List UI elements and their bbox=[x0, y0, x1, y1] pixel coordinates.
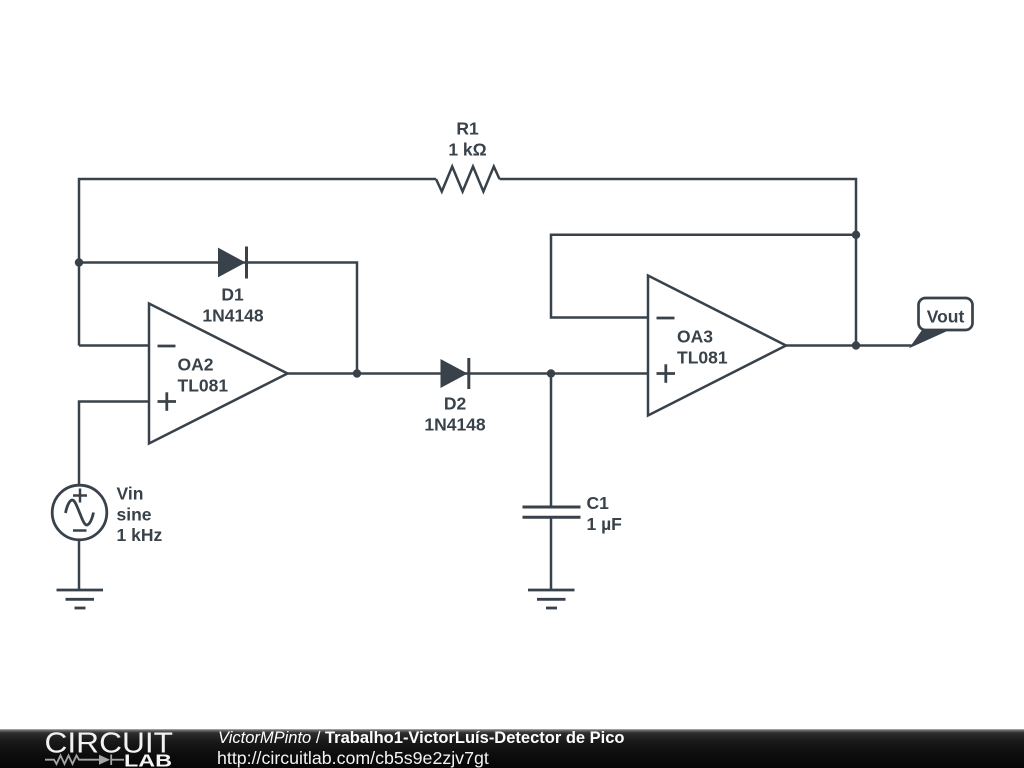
svg-text:D2: D2 bbox=[444, 394, 467, 414]
svg-text:VictorMPinto / Trabalho1-Victo: VictorMPinto / Trabalho1-VictorLuís-Dete… bbox=[218, 729, 625, 747]
svg-text:http://circuitlab.com/cb5s9e2z: http://circuitlab.com/cb5s9e2zjv7gt bbox=[217, 748, 489, 768]
svg-text:1 kHz: 1 kHz bbox=[117, 525, 163, 545]
svg-text:OA3: OA3 bbox=[677, 327, 713, 347]
svg-text:1 kΩ: 1 kΩ bbox=[448, 140, 486, 160]
svg-text:1N4148: 1N4148 bbox=[202, 306, 264, 326]
svg-text:TL081: TL081 bbox=[677, 348, 728, 368]
svg-text:OA2: OA2 bbox=[178, 355, 214, 375]
svg-text:TL081: TL081 bbox=[178, 376, 229, 396]
svg-text:C1: C1 bbox=[587, 493, 610, 513]
svg-text:1 µF: 1 µF bbox=[587, 514, 623, 534]
svg-text:D1: D1 bbox=[221, 285, 244, 305]
svg-text:R1: R1 bbox=[456, 119, 479, 139]
svg-text:sine: sine bbox=[117, 505, 152, 525]
svg-text:Vout: Vout bbox=[927, 307, 965, 327]
svg-text:1N4148: 1N4148 bbox=[424, 415, 486, 435]
svg-text:Vin: Vin bbox=[117, 484, 144, 504]
svg-text:LAB: LAB bbox=[124, 751, 172, 768]
